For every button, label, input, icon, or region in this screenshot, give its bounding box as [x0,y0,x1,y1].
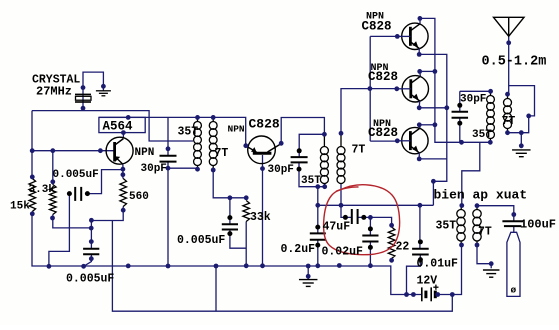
svg-text:15k: 15k [10,201,30,213]
svg-text:47uF: 47uF [323,221,351,234]
svg-text:3.3k: 3.3k [29,184,56,196]
svg-text:7T: 7T [478,226,492,239]
svg-text:100uF: 100uF [520,218,556,232]
svg-text:35T: 35T [436,220,457,233]
svg-text:NPN: NPN [228,124,245,135]
svg-text:C828: C828 [368,126,398,140]
svg-text:22: 22 [396,241,410,254]
svg-text:30pF: 30pF [268,164,294,176]
svg-text:bien ap xuat: bien ap xuat [434,188,528,203]
svg-text:A564: A564 [103,120,134,134]
svg-text:27MHz: 27MHz [36,85,72,99]
svg-text:NPN: NPN [135,147,155,159]
svg-text:12V: 12V [417,275,438,288]
svg-text:560: 560 [129,191,149,203]
svg-text:30pF: 30pF [460,94,486,106]
svg-text:35T: 35T [301,175,321,187]
svg-text:30pF: 30pF [141,163,167,175]
svg-text:0.02uF: 0.02uF [322,246,364,259]
svg-text:C828: C828 [368,70,398,84]
svg-text:C828: C828 [362,19,392,33]
svg-text:0.5-1.2m: 0.5-1.2m [482,55,547,70]
svg-text:0.2uF: 0.2uF [281,243,316,256]
svg-text:7T: 7T [502,115,516,128]
svg-text:0.005uF: 0.005uF [53,169,99,181]
svg-text:C828: C828 [249,117,280,132]
svg-text:0.005uF: 0.005uF [177,234,225,247]
svg-text:35T: 35T [472,129,492,141]
svg-text:0.005uF: 0.005uF [66,273,114,286]
svg-text:ø: ø [511,285,517,296]
svg-text:0.01uF: 0.01uF [417,258,459,271]
svg-text:35T: 35T [178,126,199,139]
svg-text:33k: 33k [250,211,271,224]
svg-text:7T: 7T [352,144,366,157]
svg-text:7T: 7T [215,147,229,160]
